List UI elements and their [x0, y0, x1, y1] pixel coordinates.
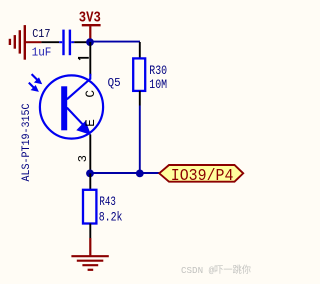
- port IO39/P4: [159, 165, 243, 185]
- svg-text:E: E: [83, 119, 98, 127]
- wire: R30 bottom to output node: [139, 106, 141, 174]
- svg-text:Q5: Q5: [108, 76, 121, 90]
- ground GND (bottom earth symbol): [71, 238, 108, 270]
- resistor R30: [139, 42, 141, 59]
- svg-text:C17: C17: [32, 27, 50, 41]
- light arrow 1: [32, 74, 43, 84]
- svg-text:C: C: [83, 90, 98, 98]
- svg-text:10M: 10M: [149, 77, 167, 92]
- svg-text:R30: R30: [149, 63, 167, 78]
- wire: node A to R30 top: [90, 41, 140, 43]
- wire: capacitor right pin to node: [74, 41, 87, 43]
- svg-text:ALS-PT19-315C: ALS-PT19-315C: [21, 104, 33, 182]
- svg-text:3: 3: [76, 155, 90, 162]
- svg-text:R43: R43: [99, 194, 116, 209]
- node C: junction R30 bottom: [136, 170, 144, 178]
- ground GND (left, rotated earth symbol): [10, 25, 42, 60]
- transistor Q5 pin 1 (collector pin line): [89, 42, 91, 76]
- wire: output net: [90, 172, 159, 174]
- capacitor C17: [59, 30, 74, 56]
- transistor Q5 pin 3 (emitter pin line): [89, 135, 91, 174]
- wire: gnd lead to capacitor left pin: [41, 41, 59, 43]
- transistor Q5 (phototransistor): [40, 74, 103, 139]
- power port 3V3: [79, 8, 101, 39]
- svg-text:1uF: 1uF: [32, 45, 52, 59]
- svg-text:CSDN @吓一跳你: CSDN @吓一跳你: [181, 264, 251, 276]
- resistor R43: [89, 173, 91, 189]
- pin number 1: [78, 58, 89, 60]
- svg-text:3V3: 3V3: [79, 8, 101, 26]
- svg-text:IO39/P4: IO39/P4: [171, 166, 234, 185]
- light arrow 2: [29, 83, 39, 92]
- node B: junction emitter/output: [86, 170, 94, 178]
- svg-text:8.2k: 8.2k: [99, 209, 123, 224]
- node A: junction at 3V3 rail: [86, 38, 94, 46]
